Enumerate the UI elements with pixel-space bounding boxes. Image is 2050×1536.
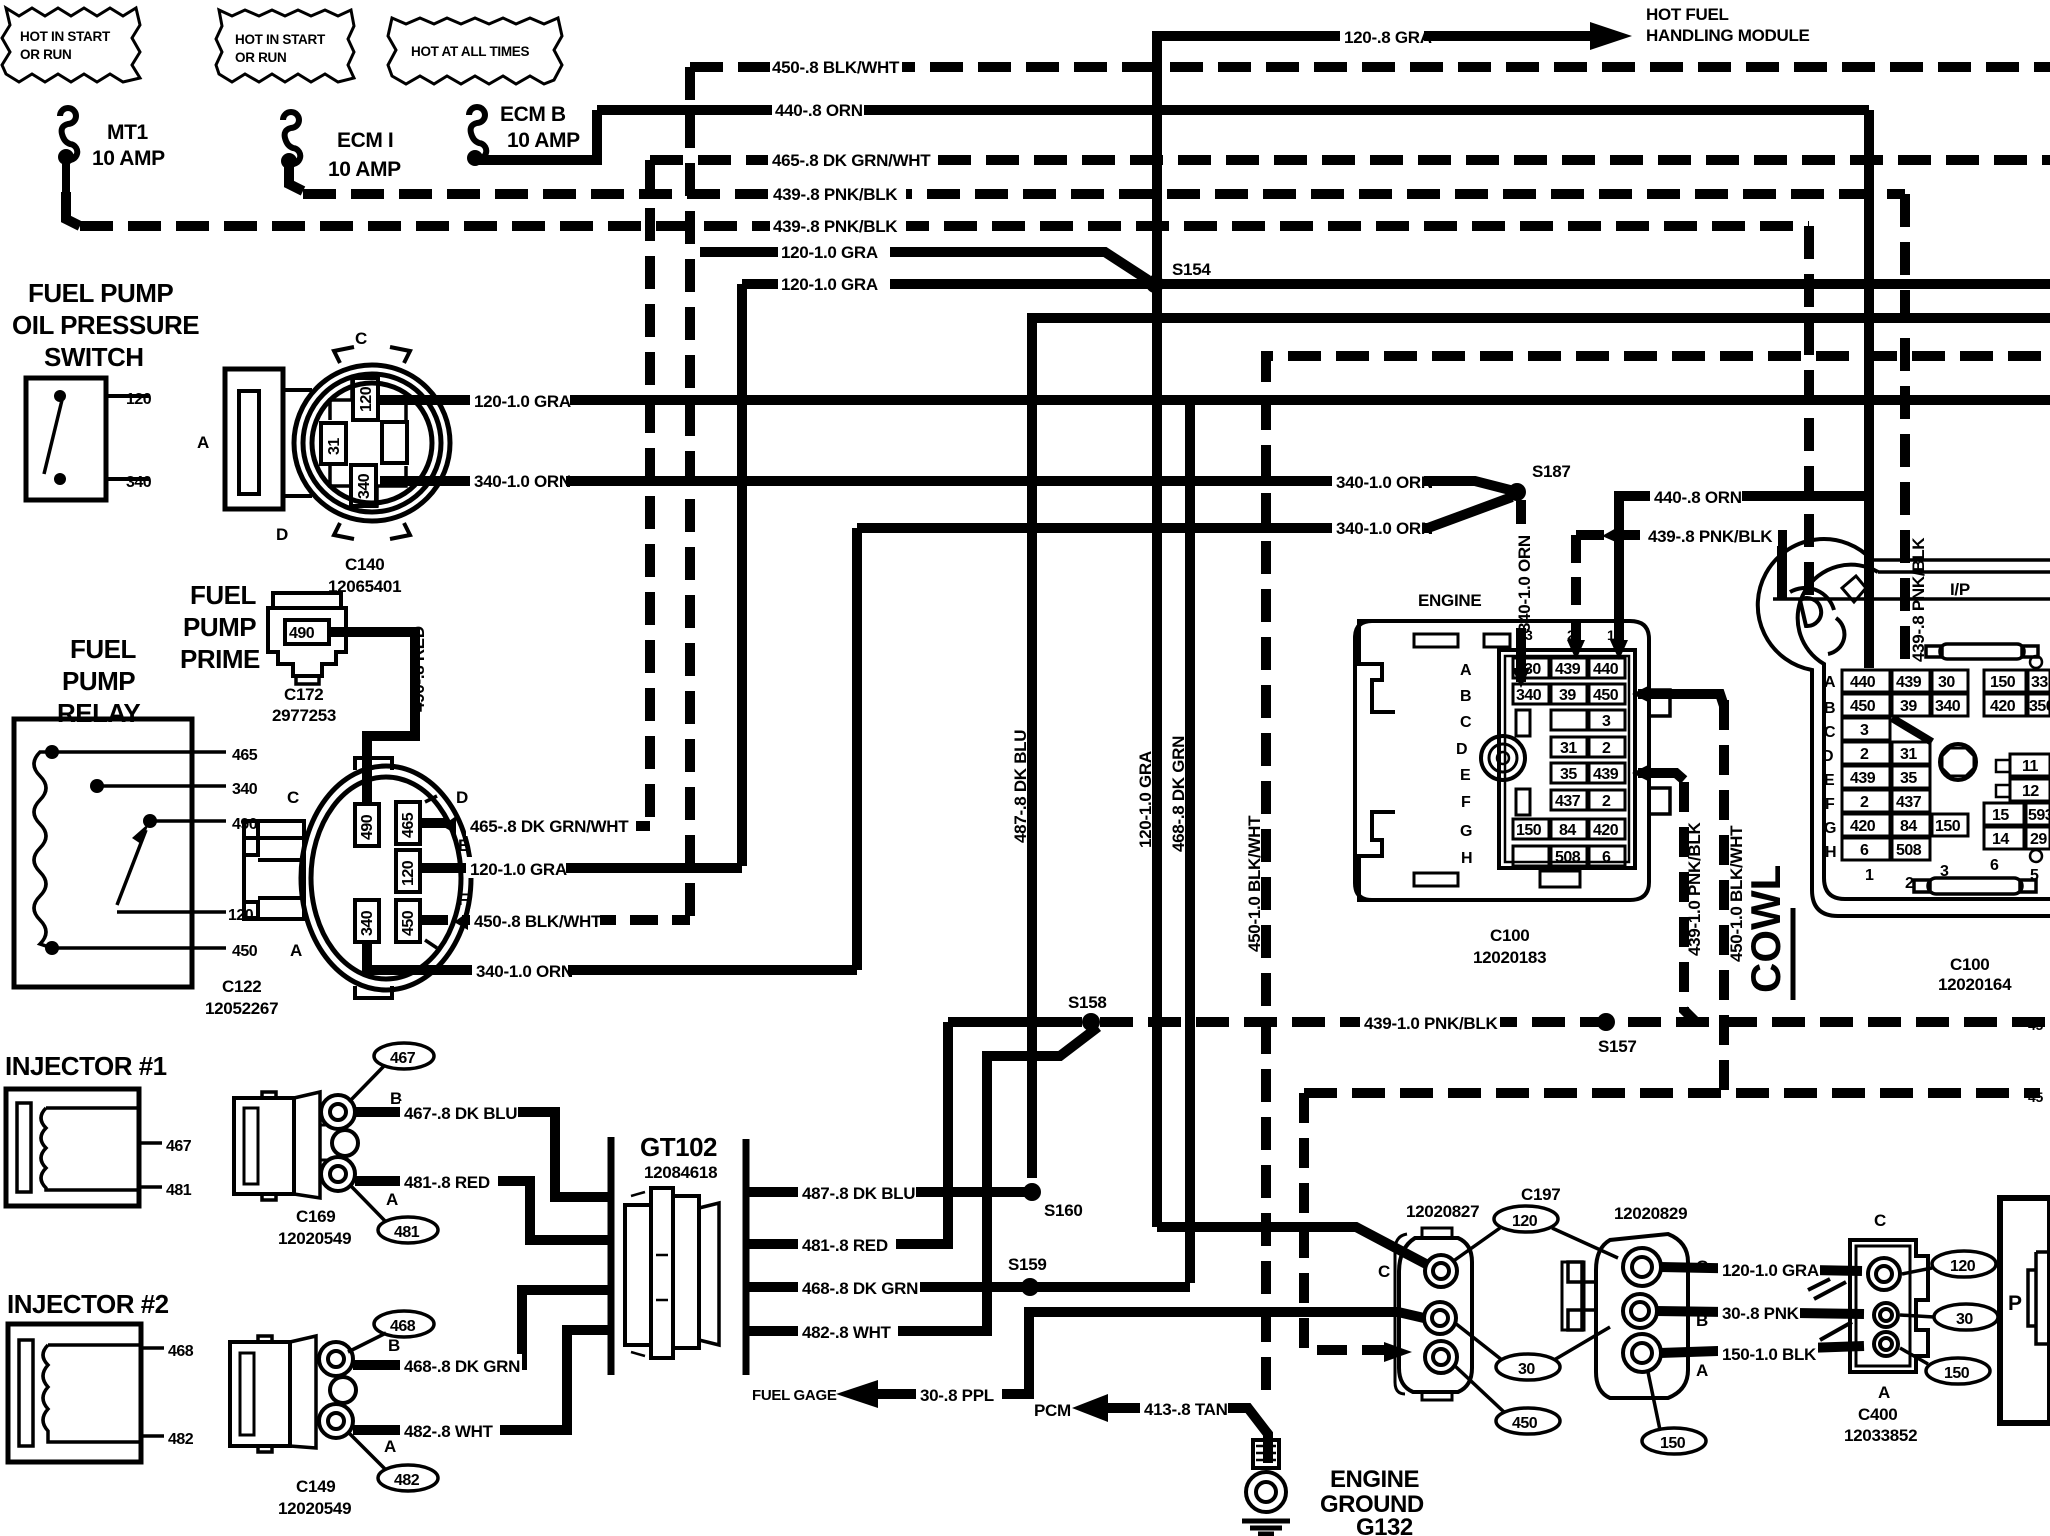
connector C172 fuel pump prime bbox=[268, 593, 346, 684]
svg-text:30-.8 PPL: 30-.8 PPL bbox=[920, 1386, 994, 1405]
svg-text:3: 3 bbox=[1860, 722, 1869, 739]
svg-text:C: C bbox=[1460, 714, 1472, 731]
svg-text:420: 420 bbox=[1593, 822, 1619, 839]
svg-text:A: A bbox=[197, 433, 209, 452]
svg-text:PCM: PCM bbox=[1034, 1401, 1071, 1420]
wire 440-.8 ORN drop x=1869 from top bus to I/P pin 440 bbox=[1864, 110, 1874, 668]
svg-text:340-1.0 ORN: 340-1.0 ORN bbox=[1336, 473, 1433, 492]
svg-text:F: F bbox=[458, 890, 468, 909]
connector I/P key shapes bbox=[1790, 576, 1866, 654]
svg-text:D: D bbox=[1456, 741, 1467, 758]
wire 487-.8 DK BLU bus: vertical x=1032 and top run y=318 bbox=[1032, 318, 2050, 1178]
wire 482-.8 WHT from GT102 up riser x=987 bbox=[746, 1027, 1098, 1331]
svg-text:A: A bbox=[1878, 1383, 1890, 1402]
relay pin 465 line bbox=[52, 750, 226, 754]
svg-text:29: 29 bbox=[2030, 831, 2047, 848]
svg-text:F: F bbox=[1461, 794, 1471, 811]
label oval 30 C400 bbox=[1934, 1304, 1998, 1330]
svg-text:340-1.0 ORN: 340-1.0 ORN bbox=[474, 472, 571, 491]
svg-text:450-.8 BLK/WHT: 450-.8 BLK/WHT bbox=[772, 58, 900, 77]
svg-text:465: 465 bbox=[400, 812, 417, 838]
wire bus 439-.8 PNK/BLK dashed #1 bbox=[303, 189, 1905, 199]
component injector #2 box bbox=[8, 1324, 194, 1462]
label I/P letters A-H bbox=[1822, 674, 1836, 861]
svg-text:10 AMP: 10 AMP bbox=[507, 129, 580, 152]
svg-text:150: 150 bbox=[1516, 822, 1542, 839]
svg-text:ECM B: ECM B bbox=[500, 103, 566, 126]
svg-text:468-.8 DK GRN: 468-.8 DK GRN bbox=[404, 1357, 520, 1376]
svg-text:12020549: 12020549 bbox=[278, 1229, 351, 1248]
svg-text:A: A bbox=[384, 1437, 396, 1456]
svg-text:440: 440 bbox=[1593, 661, 1619, 678]
svg-text:S154: S154 bbox=[1172, 260, 1211, 279]
splice S158 bbox=[1082, 1013, 1100, 1031]
wire vertical 340 ORN riser x=857 bbox=[852, 528, 862, 970]
svg-text:31: 31 bbox=[326, 438, 343, 455]
svg-text:482: 482 bbox=[394, 1472, 420, 1489]
svg-text:440: 440 bbox=[1850, 674, 1876, 691]
connector GT102 body bbox=[625, 1188, 719, 1358]
svg-text:10 AMP: 10 AMP bbox=[92, 147, 165, 170]
splice S187 bbox=[1508, 483, 1526, 501]
svg-text:450: 450 bbox=[400, 910, 417, 936]
svg-text:FUEL PUMP: FUEL PUMP bbox=[28, 278, 173, 308]
svg-text:340-1.0 ORN: 340-1.0 ORN bbox=[476, 962, 573, 981]
svg-text:G: G bbox=[1460, 823, 1472, 840]
svg-text:D: D bbox=[276, 525, 288, 544]
svg-text:30: 30 bbox=[1518, 1361, 1535, 1378]
svg-text:490: 490 bbox=[359, 814, 376, 840]
svg-text:490-.8 RED: 490-.8 RED bbox=[409, 626, 428, 712]
svg-text:ECM I: ECM I bbox=[337, 129, 393, 152]
svg-text:508: 508 bbox=[1555, 849, 1581, 866]
svg-text:C197: C197 bbox=[1521, 1185, 1560, 1204]
svg-text:84: 84 bbox=[1900, 818, 1917, 835]
svg-text:439-1.0 PNK/BLK: 439-1.0 PNK/BLK bbox=[1364, 1014, 1498, 1033]
svg-text:E: E bbox=[1460, 767, 1471, 784]
svg-text:C122: C122 bbox=[222, 977, 261, 996]
wire FUEL GAGE 30-.8 PPL bbox=[854, 1312, 1424, 1394]
label oval 468 callout bbox=[374, 1311, 434, 1337]
flag HOT IN START OR RUN #2 bbox=[216, 10, 354, 82]
svg-text:2: 2 bbox=[1860, 746, 1869, 763]
svg-text:340: 340 bbox=[359, 910, 376, 936]
svg-text:FUEL GAGE: FUEL GAGE bbox=[752, 1387, 837, 1404]
svg-text:11: 11 bbox=[2022, 758, 2039, 775]
wire 120-1.0 GRA line #1 to S154 bbox=[700, 252, 1148, 280]
flag HOT AT ALL TIMES bbox=[388, 18, 562, 84]
svg-text:482-.8 WHT: 482-.8 WHT bbox=[802, 1323, 892, 1342]
svg-text:467: 467 bbox=[166, 1138, 192, 1155]
splice S159 bbox=[1021, 1278, 1039, 1296]
svg-text:593: 593 bbox=[2028, 807, 2050, 824]
component injector #1 box bbox=[6, 1089, 192, 1206]
wire 439-.8 PNK/BLK branch to ENGINE pin 439 bbox=[1576, 530, 1640, 540]
I/P bolt circle bbox=[1940, 744, 1976, 780]
ENGINE bolt circle bbox=[1481, 736, 1525, 780]
wire 120-.8 GRA to HOT FUEL HANDLING MODULE with arrow bbox=[1157, 36, 1590, 284]
label oval 120 C400 bbox=[1902, 1251, 1996, 1277]
wire 490-.8 RED from C172 to C122 pin 490 bbox=[329, 632, 415, 806]
component oil pressure switch box bbox=[26, 378, 152, 500]
svg-text:ENGINE: ENGINE bbox=[1330, 1466, 1420, 1493]
connector C122 oval body bbox=[244, 758, 471, 998]
svg-text:120-1.0 GRA: 120-1.0 GRA bbox=[1722, 1261, 1819, 1280]
relay pin 340 line bbox=[97, 784, 226, 788]
svg-text:S187: S187 bbox=[1532, 462, 1571, 481]
svg-text:10 AMP: 10 AMP bbox=[328, 158, 401, 181]
I/P pin grid bbox=[1842, 670, 1968, 860]
svg-text:2977253: 2977253 bbox=[272, 706, 336, 725]
svg-text:439-.8 PNK/BLK: 439-.8 PNK/BLK bbox=[1648, 527, 1773, 546]
svg-text:150-1.0 BLK: 150-1.0 BLK bbox=[1722, 1345, 1817, 1364]
svg-text:39: 39 bbox=[1559, 687, 1576, 704]
ground symbol G132 bbox=[1242, 1521, 1290, 1534]
svg-text:HOT FUEL: HOT FUEL bbox=[1646, 5, 1729, 24]
svg-text:ENGINE: ENGINE bbox=[1418, 591, 1481, 610]
svg-text:31: 31 bbox=[1560, 740, 1577, 757]
svg-text:45: 45 bbox=[2028, 1089, 2043, 1105]
wire 120-1.0 GRA line #2 through S154 to right edge bbox=[742, 279, 2050, 289]
svg-text:120: 120 bbox=[228, 907, 254, 924]
svg-text:481: 481 bbox=[166, 1182, 192, 1199]
splice S154 bbox=[1146, 275, 1164, 293]
svg-text:481-.8 RED: 481-.8 RED bbox=[802, 1236, 888, 1255]
svg-text:E: E bbox=[1824, 772, 1835, 789]
fuse ECM I bbox=[281, 112, 401, 181]
connector ENGINE C100 outline bbox=[1355, 621, 1670, 900]
svg-text:D: D bbox=[1822, 748, 1833, 765]
label ENGINE letters A-H bbox=[1456, 627, 1615, 867]
svg-text:S159: S159 bbox=[1008, 1255, 1047, 1274]
connector 12020829 body bbox=[1562, 1234, 1688, 1398]
svg-text:30-.8 PNK: 30-.8 PNK bbox=[1722, 1304, 1800, 1323]
wire bus 465-.8 DK GRN/WHT dashed bbox=[650, 155, 2050, 165]
wire 450-.8 BLK/WHT from C122 pin F to riser x=690 bbox=[420, 915, 690, 925]
svg-text:84: 84 bbox=[1559, 822, 1576, 839]
svg-text:482-.8 WHT: 482-.8 WHT bbox=[404, 1422, 494, 1441]
svg-text:12020829: 12020829 bbox=[1614, 1204, 1687, 1223]
label oval 150 (left) bbox=[1642, 1428, 1706, 1454]
svg-text:14: 14 bbox=[1992, 831, 2009, 848]
svg-text:COWL: COWL bbox=[1742, 865, 1789, 993]
svg-text:S158: S158 bbox=[1068, 993, 1107, 1012]
wire 340-1.0 ORN line2 from riser to S187 diagonal bbox=[857, 497, 1512, 528]
svg-text:2: 2 bbox=[1860, 794, 1869, 811]
I/P bottom numbers bbox=[1865, 857, 2039, 892]
svg-text:440-.8 ORN: 440-.8 ORN bbox=[775, 101, 863, 120]
svg-text:6: 6 bbox=[1990, 857, 1999, 874]
I/P right mini grid upper bbox=[1984, 656, 2050, 716]
svg-text:OR RUN: OR RUN bbox=[235, 50, 286, 65]
connector GT102 right rail bbox=[743, 1139, 750, 1375]
svg-text:120: 120 bbox=[1512, 1213, 1538, 1230]
svg-text:340: 340 bbox=[356, 473, 373, 499]
svg-text:A: A bbox=[1824, 674, 1836, 691]
svg-text:450-1.0 BLK/WHT: 450-1.0 BLK/WHT bbox=[1245, 815, 1264, 952]
wire 340-1.0 ORN line1 from C140 to S187 bbox=[380, 481, 1510, 490]
svg-text:420: 420 bbox=[1990, 698, 2016, 715]
svg-text:15: 15 bbox=[1992, 807, 2009, 824]
svg-text:B: B bbox=[388, 1336, 400, 1355]
svg-text:C172: C172 bbox=[284, 685, 323, 704]
svg-text:INJECTOR #1: INJECTOR #1 bbox=[5, 1051, 167, 1081]
component right edge box with P bbox=[2000, 1198, 2050, 1423]
svg-text:FUEL: FUEL bbox=[190, 580, 257, 610]
svg-text:12084618: 12084618 bbox=[644, 1163, 717, 1182]
connector C400 body bbox=[1850, 1240, 1928, 1372]
svg-text:450: 450 bbox=[1850, 698, 1876, 715]
svg-text:C140: C140 bbox=[345, 555, 384, 574]
svg-text:120: 120 bbox=[358, 386, 375, 412]
svg-text:6: 6 bbox=[1602, 849, 1611, 866]
connector C149 bbox=[230, 1336, 356, 1452]
connector I/P capsule slot bbox=[1926, 644, 2038, 659]
svg-text:340: 340 bbox=[232, 781, 258, 798]
svg-text:439-1.0 PNK/BLK: 439-1.0 PNK/BLK bbox=[1685, 822, 1704, 956]
wire PCM 413-.8 TAN bbox=[1108, 1408, 1268, 1463]
svg-text:437: 437 bbox=[1896, 794, 1922, 811]
svg-text:439: 439 bbox=[1896, 674, 1922, 691]
wire 120-1.0 GRA to connector 12020827 bbox=[1157, 1227, 1426, 1264]
svg-text:35: 35 bbox=[1560, 766, 1577, 783]
wire 439-.8 PNK/BLK drop x=1905 from bus#1 to I/P pin 439 bbox=[1900, 194, 1910, 668]
svg-text:E: E bbox=[458, 836, 469, 855]
svg-text:RELAY: RELAY bbox=[57, 698, 140, 728]
svg-text:120-1.0 GRA: 120-1.0 GRA bbox=[781, 275, 878, 294]
svg-text:150: 150 bbox=[1990, 674, 2016, 691]
svg-text:340: 340 bbox=[126, 474, 152, 491]
relay pin 450 line bbox=[52, 946, 226, 950]
svg-text:2: 2 bbox=[1602, 740, 1611, 757]
svg-text:S160: S160 bbox=[1044, 1201, 1083, 1220]
wire bus 440-.8 ORN solid bbox=[597, 105, 1869, 115]
svg-text:467-.8 DK BLU: 467-.8 DK BLU bbox=[404, 1104, 517, 1123]
svg-text:PUMP: PUMP bbox=[62, 666, 135, 696]
svg-text:OIL PRESSURE: OIL PRESSURE bbox=[12, 310, 199, 340]
relay pin 120 line bbox=[117, 910, 226, 914]
svg-text:340-1.0 ORN: 340-1.0 ORN bbox=[1336, 519, 1433, 538]
svg-text:C: C bbox=[287, 788, 299, 807]
component ring terminal bbox=[1246, 1440, 1286, 1512]
relay pin 490 line bbox=[150, 819, 226, 823]
fuse MT1 bbox=[58, 108, 165, 196]
svg-text:HOT AT ALL TIMES: HOT AT ALL TIMES bbox=[411, 44, 529, 59]
svg-text:481: 481 bbox=[394, 1224, 420, 1241]
svg-text:F: F bbox=[1825, 796, 1835, 813]
wire 468-.8 DK GRN from GT102 through S159 to riser x=1190 bbox=[746, 1282, 1190, 1292]
svg-text:A: A bbox=[1696, 1361, 1708, 1380]
svg-text:A: A bbox=[290, 941, 302, 960]
svg-text:30: 30 bbox=[1938, 674, 1955, 691]
wire 465-.8 DK GRN/WHT from C122 pin D to riser x=650 bbox=[420, 823, 650, 826]
wire 340-1.0 ORN vertical from S187 into ENGINE pin 340 bbox=[1516, 500, 1526, 682]
label oval 481 callout bbox=[378, 1217, 438, 1243]
svg-text:C100: C100 bbox=[1490, 926, 1529, 945]
wire 450-1.0 BLK/WHT dashed bus: vertical x=1266 and top run y=356 bbox=[1266, 356, 2050, 1390]
wire ECM I fuse to 439 bus #1 bbox=[289, 161, 303, 191]
svg-text:MT1: MT1 bbox=[107, 121, 149, 144]
component fuel pump relay box bbox=[14, 719, 192, 987]
svg-text:A: A bbox=[386, 1190, 398, 1209]
relay switch arm bbox=[117, 830, 146, 905]
svg-text:B: B bbox=[1824, 700, 1835, 717]
svg-text:GT102: GT102 bbox=[640, 1132, 717, 1162]
svg-text:C: C bbox=[1824, 724, 1836, 741]
relay coil bbox=[34, 752, 52, 948]
svg-text:6: 6 bbox=[1860, 842, 1869, 859]
svg-text:2: 2 bbox=[1602, 793, 1611, 810]
svg-text:FUEL: FUEL bbox=[70, 634, 137, 664]
svg-text:39: 39 bbox=[1900, 698, 1917, 715]
svg-text:12052267: 12052267 bbox=[205, 999, 278, 1018]
svg-text:450: 450 bbox=[1512, 1415, 1538, 1432]
svg-text:12: 12 bbox=[2022, 783, 2039, 800]
connector C122 pin boxes bbox=[355, 802, 420, 942]
wire 30-.8 PNK to C400 bbox=[1656, 1311, 1864, 1314]
svg-text:S157: S157 bbox=[1598, 1037, 1637, 1056]
connector 12020827 body bbox=[1395, 1228, 1472, 1400]
svg-text:G: G bbox=[1824, 820, 1836, 837]
svg-text:C: C bbox=[355, 329, 367, 348]
wire 450 dashed horizontal y=1093 bbox=[1304, 1088, 2040, 1098]
svg-text:12020164: 12020164 bbox=[1938, 975, 2012, 994]
I/P right mini grid lower bbox=[1984, 754, 2050, 862]
wire 120-1.0 GRA from C122 pin E to riser x=742 bbox=[420, 863, 742, 873]
wire 340-1.0 ORN from C122 pin A to riser x=857 bbox=[367, 942, 857, 970]
svg-text:340: 340 bbox=[1935, 698, 1961, 715]
svg-text:481-.8 RED: 481-.8 RED bbox=[404, 1173, 490, 1192]
connector I/P C100 outline bbox=[1758, 539, 2050, 916]
svg-text:PUMP: PUMP bbox=[183, 612, 256, 642]
wire 487-.8 DK BLU from GT102 to S160 bbox=[746, 1187, 1032, 1197]
svg-text:30: 30 bbox=[1956, 1311, 1973, 1328]
svg-text:HOT IN START: HOT IN START bbox=[235, 32, 326, 47]
wire vertical dashed 450 drop x=690 bbox=[685, 67, 695, 920]
wire 468-.8 DK GRN bus: vertical x=1190 and top run y=400 bbox=[1190, 400, 2050, 1283]
connector C169 bbox=[234, 1092, 358, 1200]
svg-text:1: 1 bbox=[1607, 627, 1615, 643]
wire vertical 120 GRA drop x=742 bbox=[737, 284, 747, 866]
svg-text:120: 120 bbox=[1950, 1258, 1976, 1275]
svg-text:468: 468 bbox=[168, 1343, 194, 1360]
svg-text:340: 340 bbox=[1516, 687, 1542, 704]
svg-text:31: 31 bbox=[1900, 746, 1917, 763]
wire 439-.8 PNK/BLK drop x=1809 from bus#2 to I/P key bbox=[1804, 226, 1814, 600]
svg-text:12020183: 12020183 bbox=[1473, 948, 1546, 967]
svg-text:340-1.0 ORN: 340-1.0 ORN bbox=[1515, 535, 1534, 632]
wire bus 450-.8 BLK/WHT dashed (top) bbox=[690, 62, 2050, 72]
svg-text:120: 120 bbox=[126, 391, 152, 408]
svg-text:120-.8 GRA: 120-.8 GRA bbox=[1344, 28, 1432, 47]
svg-text:HANDLING MODULE: HANDLING MODULE bbox=[1646, 26, 1810, 45]
wire 467-.8 DK BLU from C169 B to GT102 bbox=[355, 1112, 611, 1197]
svg-text:45: 45 bbox=[2028, 1017, 2043, 1033]
label oval 30 bbox=[1496, 1354, 1560, 1380]
svg-text:SWITCH: SWITCH bbox=[44, 342, 144, 372]
svg-text:465: 465 bbox=[232, 747, 258, 764]
svg-text:508: 508 bbox=[1896, 842, 1922, 859]
svg-text:C400: C400 bbox=[1858, 1405, 1897, 1424]
svg-text:12020549: 12020549 bbox=[278, 1499, 351, 1518]
svg-text:120: 120 bbox=[400, 860, 417, 886]
svg-text:3: 3 bbox=[1602, 713, 1611, 730]
wire ENGINE pin 450 stub to 450 drop x=1724 bbox=[1638, 689, 1700, 699]
svg-text:440-.8 ORN: 440-.8 ORN bbox=[1654, 488, 1742, 507]
svg-text:420: 420 bbox=[1850, 818, 1876, 835]
connector GT102 left rail bbox=[608, 1137, 615, 1375]
svg-text:487-.8 DK BLU: 487-.8 DK BLU bbox=[1011, 730, 1030, 843]
svg-text:3: 3 bbox=[1525, 627, 1533, 643]
svg-text:450: 450 bbox=[232, 943, 258, 960]
splice S160 bbox=[1023, 1183, 1041, 1201]
svg-text:490: 490 bbox=[289, 625, 315, 642]
svg-text:35: 35 bbox=[1900, 770, 1917, 787]
svg-text:465-.8 DK GRN/WHT: 465-.8 DK GRN/WHT bbox=[470, 817, 629, 836]
svg-text:G132: G132 bbox=[1356, 1514, 1413, 1536]
wire ENGINE pin 439 stub to 439 drop x=1684 bbox=[1638, 773, 1684, 780]
svg-text:120-1.0 GRA: 120-1.0 GRA bbox=[474, 392, 571, 411]
svg-text:439-.8 PNK/BLK: 439-.8 PNK/BLK bbox=[773, 185, 898, 204]
wire 439-1.0 PNK/BLK S158 line horizontal bbox=[948, 1017, 2050, 1027]
wire 450 dashed drop x=1304 to 12020827 bbox=[1304, 1093, 1384, 1350]
wire 468-.8 DK GRN from C149 B to GT102 bbox=[353, 1290, 611, 1365]
svg-text:33: 33 bbox=[2031, 674, 2048, 691]
wire 120-1.0 GRA to C400 bbox=[1660, 1267, 1862, 1271]
svg-text:D: D bbox=[456, 788, 468, 807]
I/P bottom capsule bbox=[1914, 878, 2036, 894]
svg-text:150: 150 bbox=[1944, 1365, 1970, 1382]
label oval 450 bbox=[1496, 1408, 1560, 1434]
wire 482-.8 WHT from C149 A to GT102 bbox=[353, 1330, 611, 1430]
svg-text:B: B bbox=[1460, 688, 1471, 705]
connector C140 circular body bbox=[225, 347, 450, 539]
svg-text:12033852: 12033852 bbox=[1844, 1426, 1917, 1445]
svg-text:413-.8 TAN: 413-.8 TAN bbox=[1144, 1400, 1228, 1419]
label oval 467 callout bbox=[374, 1043, 434, 1069]
wire 120-1.0 GRA from C140 pin to x=1190 bbox=[378, 395, 1190, 405]
svg-text:468: 468 bbox=[390, 1318, 416, 1335]
svg-text:120-1.0 GRA: 120-1.0 GRA bbox=[781, 243, 878, 262]
svg-text:2: 2 bbox=[1567, 627, 1575, 643]
svg-text:350: 350 bbox=[2029, 698, 2050, 715]
splice S157 bbox=[1597, 1013, 1615, 1031]
connector C140 pin boxes bbox=[321, 378, 407, 506]
svg-text:C100: C100 bbox=[1950, 955, 1989, 974]
svg-text:487-.8 DK BLU: 487-.8 DK BLU bbox=[802, 1184, 915, 1203]
svg-text:439: 439 bbox=[1850, 770, 1876, 787]
svg-text:30: 30 bbox=[1524, 661, 1541, 678]
svg-text:439: 439 bbox=[1555, 661, 1581, 678]
fuse ECM B bbox=[467, 103, 580, 166]
wire MT1 fuse to 439 bus #2 bbox=[66, 192, 80, 226]
wire ECM B fuse to 440 bus bbox=[478, 110, 597, 160]
svg-text:H: H bbox=[1825, 844, 1836, 861]
connector ENGINE C100 inner frame bbox=[1499, 650, 1635, 868]
wire 440-.8 ORN branch to ENGINE pin 440 bbox=[1619, 496, 1869, 650]
flag HOT IN START OR RUN #1 bbox=[2, 8, 140, 82]
svg-text:1: 1 bbox=[1865, 867, 1874, 884]
svg-text:450-.8 BLK/WHT: 450-.8 BLK/WHT bbox=[474, 912, 602, 931]
svg-text:468-.8 DK GRN: 468-.8 DK GRN bbox=[1169, 736, 1188, 852]
svg-text:439-.8 PNK/BLK: 439-.8 PNK/BLK bbox=[773, 217, 898, 236]
wire 120-1.0 GRA bus: vertical x=1157 from S154 down bbox=[1152, 284, 1162, 1227]
svg-text:12020827: 12020827 bbox=[1406, 1202, 1479, 1221]
svg-text:120-1.0 GRA: 120-1.0 GRA bbox=[1136, 751, 1155, 848]
svg-text:437: 437 bbox=[1555, 793, 1581, 810]
label oval 482 callout bbox=[378, 1465, 438, 1491]
svg-text:A: A bbox=[1460, 662, 1472, 679]
